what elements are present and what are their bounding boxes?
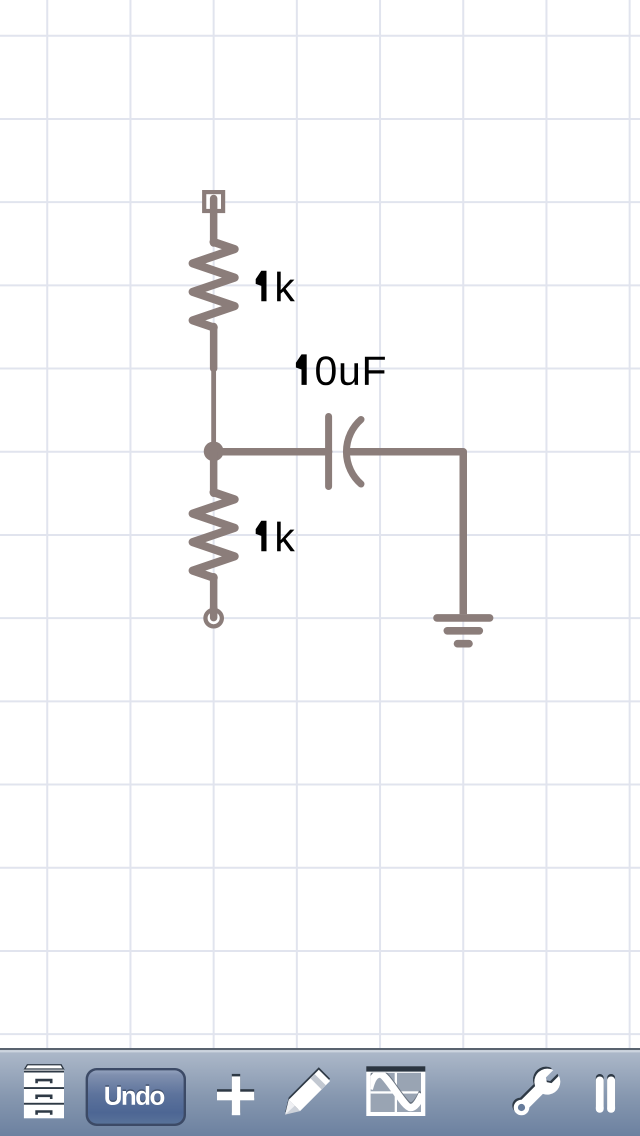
capacitor C1 [214,417,464,487]
terminal T1 (square port at top) [204,192,223,211]
wire from C1 to ground [460,452,468,615]
node A junction dot [204,442,224,462]
icon: add component (+) [217,1074,254,1115]
toolbar background [0,1048,640,1136]
icon: oscilloscope [366,1066,425,1116]
label R2 value 1k [256,521,295,552]
wire from R1 to node A [211,368,216,451]
button Undo [86,1068,186,1126]
ground GND1 [437,618,490,644]
icon: edit (pencil) [280,1067,331,1120]
icon: pause [596,1074,615,1113]
resistor R2 [193,452,235,618]
icon: parts library (filing cabinet) [24,1065,64,1118]
icon: settings (wrench) [505,1062,565,1122]
label R1 value 1k [256,271,295,302]
terminal T2 (circle port at bottom) [205,607,221,626]
label C1 value 10uF [296,354,385,385]
resistor R1 [193,199,235,369]
